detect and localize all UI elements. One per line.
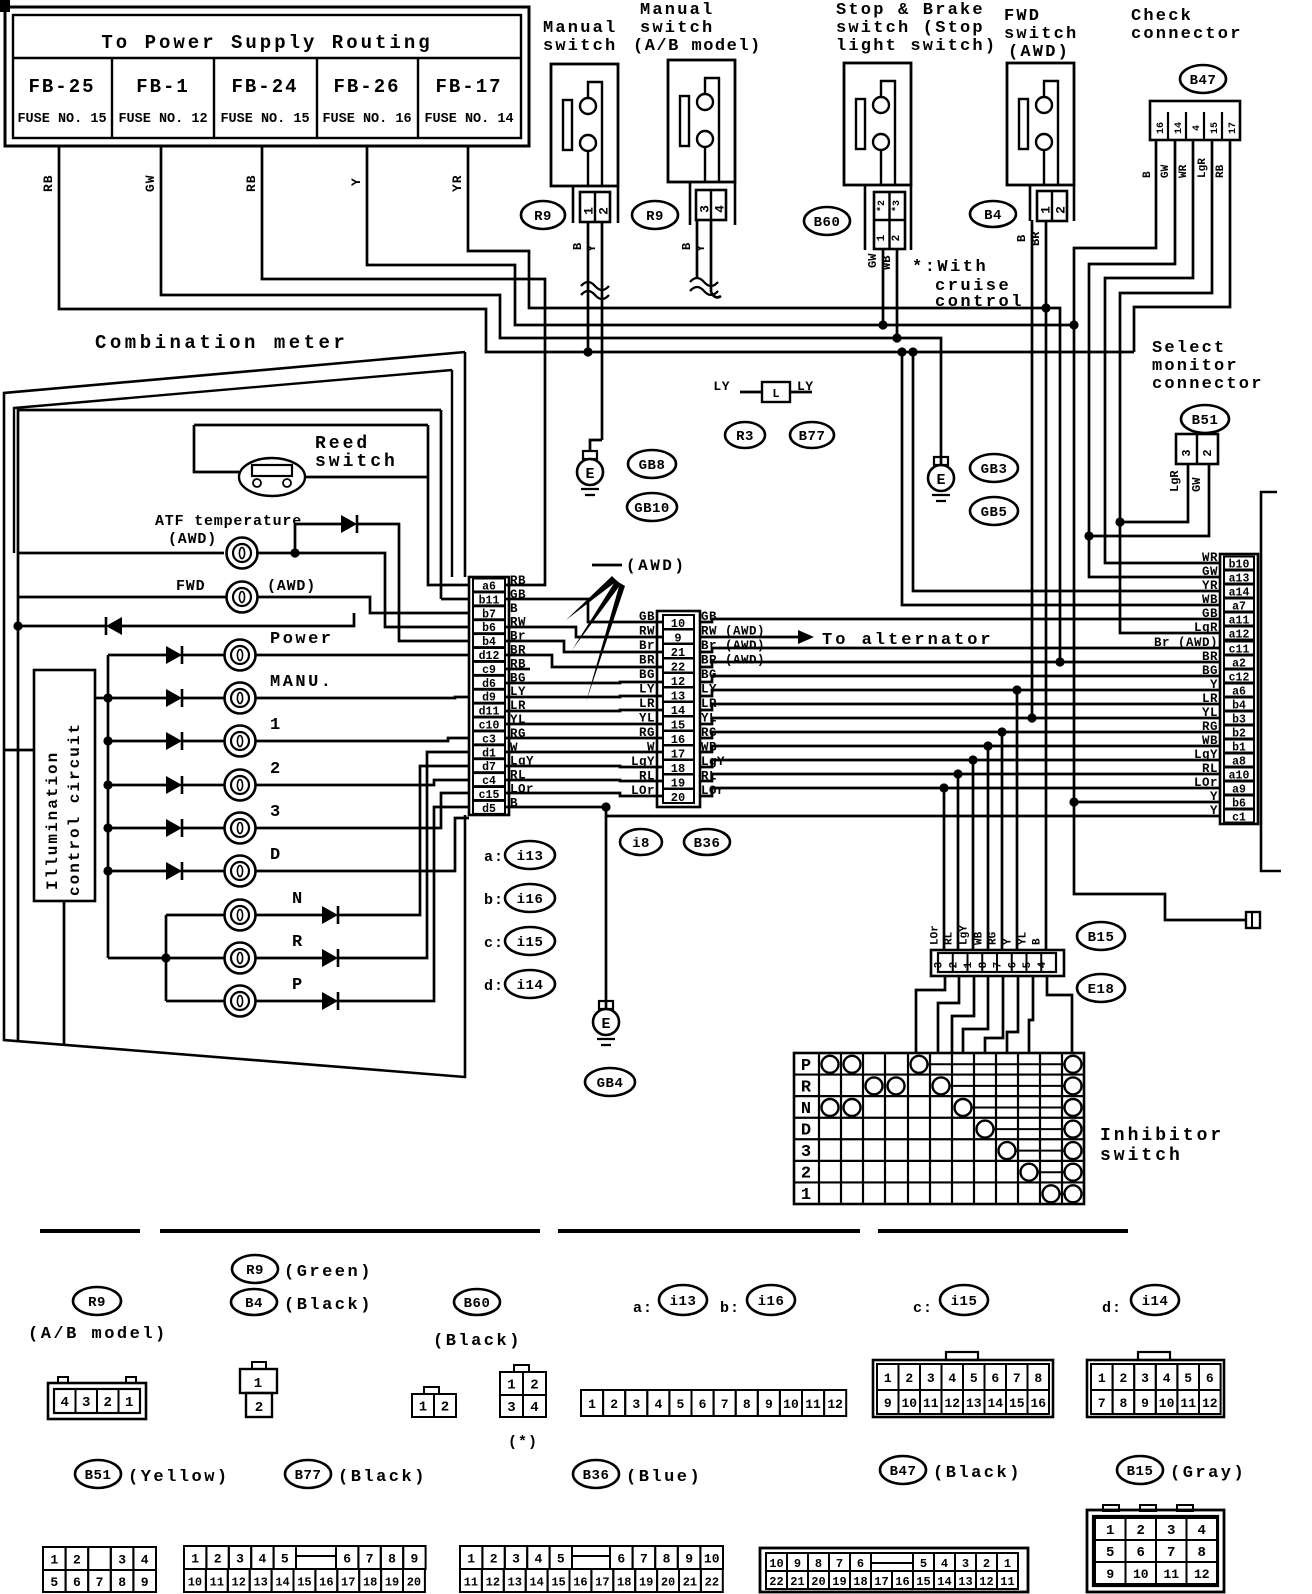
svg-text:LOr: LOr — [1194, 776, 1218, 790]
svg-text:14: 14 — [987, 1396, 1003, 1411]
svg-text:YL: YL — [1202, 706, 1218, 720]
svg-text:1: 1 — [876, 234, 888, 241]
svg-text:5: 5 — [50, 1575, 58, 1590]
svg-text:RL: RL — [944, 931, 956, 945]
svg-text:LgR: LgR — [1194, 621, 1218, 635]
svg-text:9: 9 — [794, 1557, 801, 1571]
inhibitor fan wires — [916, 976, 945, 1053]
svg-text:13: 13 — [508, 1576, 522, 1590]
inhibitor connector frame — [931, 950, 1064, 976]
meter pins — [473, 579, 505, 592]
svg-text:18: 18 — [853, 1575, 867, 1589]
svg-text:*3: *3 — [891, 200, 903, 212]
wires meter to mid straight — [505, 682, 663, 683]
table title separator — [13, 57, 521, 59]
svg-text:(Black): (Black) — [433, 1332, 522, 1351]
svg-text:B: B — [680, 243, 694, 250]
wire Br b4-21 — [505, 641, 663, 652]
svg-text:BG: BG — [639, 668, 655, 682]
wire RB fuse FB-25 — [59, 146, 1134, 352]
svg-text:Y: Y — [694, 244, 708, 252]
svg-text:i14: i14 — [517, 978, 544, 994]
plug symbol — [1246, 912, 1260, 928]
svg-text:FWD: FWD — [176, 578, 205, 595]
svg-text:1: 1 — [582, 207, 597, 215]
lamp bus left — [107, 655, 110, 958]
svg-text:2: 2 — [530, 1378, 538, 1394]
svg-text:B: B — [1142, 171, 1154, 178]
check connector block — [1150, 101, 1240, 140]
svg-text:16: 16 — [1156, 122, 1167, 134]
stop brake switch S3 — [844, 63, 911, 185]
svg-text:P: P — [292, 976, 305, 995]
svg-text:LgR: LgR — [1168, 470, 1182, 492]
svg-text:B77: B77 — [799, 429, 826, 445]
svg-text:9: 9 — [141, 1575, 149, 1590]
svg-text:6: 6 — [991, 1371, 999, 1386]
svg-text:control: control — [935, 293, 1024, 312]
svg-text:Power: Power — [270, 630, 334, 649]
svg-text:1: 1 — [801, 1186, 811, 1205]
ATF junction — [290, 548, 299, 557]
svg-text:5: 5 — [1184, 1371, 1192, 1386]
svg-text:control circuit: control circuit — [66, 722, 84, 896]
svg-text:7: 7 — [721, 1397, 729, 1412]
illumination control circuit box — [34, 670, 95, 901]
svg-text:GB4: GB4 — [597, 1076, 624, 1092]
svg-text:5: 5 — [281, 1552, 289, 1567]
svg-text:FWD: FWD — [1004, 7, 1041, 26]
svg-text:13: 13 — [966, 1396, 982, 1411]
inhibitor grid circles — [822, 1056, 839, 1073]
svg-text:b:: b: — [484, 892, 504, 909]
select monitor block — [1176, 434, 1218, 464]
svg-text:RB: RB — [1215, 164, 1227, 178]
svg-text:14: 14 — [275, 1576, 289, 1590]
svg-text:1: 1 — [588, 1397, 596, 1412]
svg-text:1: 1 — [419, 1400, 427, 1416]
junction WB — [892, 333, 901, 342]
svg-text:WB: WB — [1202, 593, 1218, 607]
select monitor wire LgR — [1120, 464, 1188, 522]
svg-text:2: 2 — [270, 760, 283, 779]
svg-text:2: 2 — [891, 235, 903, 242]
svg-text:15: 15 — [297, 1576, 311, 1590]
svg-text:3: 3 — [1180, 449, 1194, 456]
svg-text:d:: d: — [1102, 1300, 1122, 1317]
ground E manual — [583, 451, 597, 459]
svg-text:monitor: monitor — [1152, 357, 1239, 376]
svg-text:LY: LY — [713, 379, 730, 394]
svg-text:d5: d5 — [482, 803, 496, 816]
svg-text:a:: a: — [633, 1300, 653, 1317]
svg-text:3: 3 — [962, 1557, 969, 1571]
svg-text:WB: WB — [880, 256, 894, 270]
FWD lamp — [227, 582, 258, 613]
legend conn R9AB — [48, 1383, 146, 1419]
connector ref i8 — [620, 829, 662, 855]
svg-text:2: 2 — [948, 962, 960, 969]
svg-text:1: 1 — [125, 1395, 133, 1411]
legend conn i15 — [873, 1360, 1053, 1417]
svg-text:11: 11 — [1163, 1567, 1179, 1582]
wires mid to right column — [700, 619, 1221, 622]
svg-text:i8: i8 — [632, 836, 650, 852]
svg-text:5: 5 — [677, 1397, 685, 1412]
svg-text:9: 9 — [1106, 1567, 1114, 1582]
ref GB5 — [970, 497, 1018, 525]
ref B15 mid — [1077, 922, 1125, 950]
check wire LgR — [1120, 140, 1221, 633]
svg-text:R9: R9 — [246, 1263, 264, 1279]
connector ref R9 — [521, 201, 565, 229]
svg-text:2: 2 — [441, 1400, 449, 1416]
svg-text:(AWD): (AWD) — [168, 531, 217, 548]
svg-text:17: 17 — [341, 1576, 355, 1590]
illumination stub bottom — [63, 901, 66, 1045]
inhibitor feed wires — [943, 788, 946, 950]
svg-text:9: 9 — [765, 1397, 773, 1412]
svg-text:Y: Y — [1210, 804, 1218, 818]
svg-text:4: 4 — [1037, 961, 1049, 968]
legend conn strip12 — [581, 1390, 603, 1416]
svg-text:19: 19 — [385, 1576, 399, 1590]
svg-text:R9: R9 — [646, 209, 664, 225]
svg-text:Y: Y — [1003, 938, 1015, 945]
connector ref B4 — [970, 201, 1016, 227]
svg-text:5: 5 — [1106, 1545, 1114, 1561]
svg-text:N: N — [801, 1100, 811, 1119]
svg-text:LY: LY — [797, 379, 814, 394]
ref R3 — [725, 422, 765, 448]
svg-text:E: E — [936, 472, 945, 489]
svg-text:GB8: GB8 — [639, 458, 666, 474]
svg-text:To alternator: To alternator — [822, 631, 994, 650]
svg-text:4: 4 — [941, 1557, 948, 1571]
svg-text:D: D — [801, 1122, 811, 1141]
svg-text:FB-1: FB-1 — [136, 76, 190, 98]
svg-text:15: 15 — [551, 1576, 565, 1590]
svg-text:Y: Y — [1210, 790, 1218, 804]
legend B4 — [231, 1289, 277, 1315]
svg-text:LgY: LgY — [1194, 748, 1218, 762]
wire Y fuse FB-26 — [367, 146, 1221, 802]
svg-text:11: 11 — [210, 1576, 224, 1590]
svg-text:switch: switch — [1004, 25, 1078, 44]
wire YR fuse FB-17 — [468, 146, 1060, 662]
svg-text:14: 14 — [937, 1575, 951, 1589]
manual switch wires B Y — [587, 222, 590, 352]
svg-text:2: 2 — [983, 1557, 990, 1571]
svg-text:2: 2 — [104, 1395, 112, 1411]
check wire RB — [1134, 140, 1230, 352]
ATF diode branch — [295, 524, 469, 641]
svg-text:17: 17 — [1228, 122, 1239, 134]
svg-text:B47: B47 — [1190, 73, 1217, 89]
ground E stop — [934, 457, 948, 465]
inhibitor connector pins — [938, 953, 1056, 972]
svg-text:E: E — [601, 1016, 610, 1033]
wire RW b6-9 — [505, 627, 663, 637]
svg-text:LOr: LOr — [510, 783, 534, 797]
svg-text:GW: GW — [866, 253, 880, 268]
svg-text:18: 18 — [617, 1576, 631, 1590]
svg-text:1: 1 — [467, 1552, 475, 1567]
svg-text:i16: i16 — [517, 892, 544, 908]
svg-text:RG: RG — [988, 931, 1000, 945]
svg-text:1: 1 — [254, 1376, 262, 1392]
svg-text:BR (AWD): BR (AWD) — [701, 654, 765, 668]
svg-text:ATF temperature: ATF temperature — [155, 513, 302, 530]
svg-text:(Black): (Black) — [284, 1296, 373, 1315]
svg-text:8: 8 — [1034, 1371, 1042, 1386]
svg-text:(Blue): (Blue) — [626, 1468, 702, 1487]
svg-text:B15: B15 — [1088, 930, 1115, 946]
svg-text:10: 10 — [1159, 1396, 1175, 1411]
svg-text:B: B — [510, 602, 518, 616]
svg-text:Br (AWD): Br (AWD) — [1154, 636, 1218, 650]
A/B switch wires — [696, 220, 699, 278]
svg-text:3: 3 — [801, 1143, 811, 1162]
legend B60 — [454, 1289, 500, 1315]
svg-text:4: 4 — [1198, 1523, 1206, 1539]
svg-text:2: 2 — [905, 1371, 913, 1386]
reed switch wires — [194, 425, 469, 585]
L connector — [762, 382, 790, 402]
FWD wires — [18, 597, 469, 613]
svg-text:4: 4 — [654, 1397, 662, 1412]
svg-text:GB5: GB5 — [981, 505, 1008, 521]
svg-text:B: B — [1015, 235, 1029, 242]
svg-text:6: 6 — [343, 1552, 351, 1567]
svg-text:9: 9 — [410, 1552, 418, 1567]
svg-text:20: 20 — [811, 1575, 825, 1589]
svg-text:b:: b: — [720, 1300, 740, 1317]
svg-text:5: 5 — [1022, 961, 1034, 968]
svg-text:c1: c1 — [1232, 812, 1246, 825]
legend B51 — [75, 1460, 121, 1488]
svg-text:13: 13 — [253, 1576, 267, 1590]
svg-text:RB: RB — [244, 174, 259, 192]
svg-text:17: 17 — [874, 1575, 888, 1589]
svg-text:*:With: *:With — [912, 258, 988, 277]
svg-text:7: 7 — [993, 962, 1005, 969]
svg-text:(Gray): (Gray) — [1170, 1464, 1246, 1483]
svg-text:15: 15 — [916, 1575, 930, 1589]
to alternator arrow — [700, 636, 798, 639]
svg-text:1: 1 — [1098, 1371, 1106, 1386]
svg-text:B60: B60 — [464, 1296, 491, 1312]
svg-text:L: L — [772, 387, 779, 401]
inhibitor grid frame — [794, 1053, 1084, 1204]
svg-text:RG: RG — [1202, 720, 1218, 734]
svg-text:i13: i13 — [517, 849, 544, 865]
connector ref R9 A/B — [632, 201, 678, 229]
svg-text:GW: GW — [1202, 565, 1218, 579]
svg-text:B51: B51 — [1192, 413, 1219, 429]
svg-text:connector: connector — [1152, 375, 1264, 394]
right column frame — [1220, 554, 1258, 824]
svg-text:BR: BR — [639, 654, 655, 668]
inhibitor grid lines — [818, 1053, 820, 1204]
ATF lamp — [227, 538, 258, 569]
AWD arrows — [566, 576, 617, 620]
svg-text:8: 8 — [1119, 1396, 1127, 1411]
svg-text:B77: B77 — [295, 1468, 322, 1484]
svg-text:6: 6 — [1206, 1371, 1214, 1386]
svg-text:i14: i14 — [1142, 1294, 1169, 1310]
legend conn 12h — [424, 1387, 439, 1394]
svg-text:8: 8 — [815, 1557, 822, 1571]
svg-text:Reed: Reed — [315, 434, 370, 454]
svg-text:WR: WR — [1178, 164, 1190, 178]
legend R9 AB — [73, 1287, 121, 1315]
svg-text:5: 5 — [970, 1371, 978, 1386]
svg-text:1: 1 — [963, 961, 975, 968]
svg-text:2: 2 — [597, 207, 612, 215]
svg-text:12: 12 — [1202, 1396, 1218, 1411]
mid connector frame — [657, 611, 700, 807]
FWD switch wires B BR — [1031, 220, 1034, 718]
svg-text:1: 1 — [507, 1378, 515, 1394]
svg-text:3: 3 — [270, 803, 283, 822]
svg-text:16: 16 — [573, 1576, 587, 1590]
legend conn i14 — [1087, 1360, 1224, 1417]
svg-text:FB-25: FB-25 — [28, 76, 95, 98]
svg-text:18: 18 — [363, 1576, 377, 1590]
svg-text:Y: Y — [349, 177, 364, 186]
svg-text:10: 10 — [769, 1557, 783, 1571]
svg-text:14: 14 — [529, 1576, 543, 1590]
ref GB4 — [585, 1068, 635, 1096]
meter pin column frame — [469, 577, 509, 815]
svg-text:21: 21 — [683, 1576, 697, 1590]
svg-text:RB: RB — [510, 574, 526, 588]
svg-text:N: N — [292, 890, 305, 909]
svg-text:B: B — [571, 243, 585, 250]
svg-text:10: 10 — [783, 1397, 799, 1412]
svg-text:light switch): light switch) — [836, 37, 997, 56]
svg-text:B: B — [1032, 938, 1044, 945]
wire d5 to ground — [505, 807, 606, 1009]
svg-text:Manual: Manual — [543, 19, 617, 38]
junction FWD BR — [1041, 303, 1050, 312]
svg-text:3: 3 — [698, 205, 713, 213]
svg-text:E: E — [585, 466, 594, 483]
svg-text:B36: B36 — [694, 836, 721, 852]
svg-text:GW: GW — [1160, 164, 1172, 178]
svg-text:11: 11 — [464, 1576, 478, 1590]
svg-text:9: 9 — [685, 1552, 693, 1567]
svg-text:5: 5 — [557, 1552, 565, 1567]
svg-text:Y: Y — [585, 244, 599, 252]
svg-text:8: 8 — [663, 1552, 671, 1567]
svg-text:1: 1 — [1106, 1523, 1114, 1539]
svg-text:MANU.: MANU. — [270, 673, 334, 692]
svg-text:LOr: LOr — [930, 925, 942, 945]
svg-text:6: 6 — [857, 1557, 864, 1571]
legend B36 — [573, 1460, 619, 1488]
svg-text:connector: connector — [1131, 25, 1243, 44]
svg-text:11: 11 — [1180, 1396, 1196, 1411]
svg-text:switch (Stop: switch (Stop — [836, 19, 985, 38]
svg-text:7: 7 — [96, 1575, 104, 1590]
svg-text:1: 1 — [1039, 206, 1054, 214]
svg-text:FUSE NO. 16: FUSE NO. 16 — [322, 112, 411, 127]
svg-text:R: R — [292, 933, 305, 952]
svg-text:GB: GB — [1202, 607, 1218, 621]
legend R9 green — [232, 1255, 278, 1283]
svg-text:i16: i16 — [758, 1294, 785, 1310]
N R P rows with right diodes — [166, 914, 224, 917]
svg-text:FUSE NO. 14: FUSE NO. 14 — [424, 112, 513, 127]
svg-text:16: 16 — [895, 1575, 909, 1589]
svg-text:3: 3 — [934, 961, 946, 968]
svg-text:5: 5 — [920, 1557, 927, 1571]
legend B77 — [285, 1460, 331, 1488]
svg-text:2: 2 — [1137, 1523, 1145, 1539]
svg-text:22: 22 — [769, 1575, 783, 1589]
svg-text:12: 12 — [979, 1575, 993, 1589]
svg-text:8: 8 — [743, 1397, 751, 1412]
svg-text:8: 8 — [1198, 1545, 1206, 1561]
svg-text:11: 11 — [805, 1397, 821, 1412]
svg-text:(A/B model): (A/B model) — [28, 1325, 168, 1344]
svg-text:3: 3 — [632, 1397, 640, 1412]
svg-text:LgR: LgR — [1197, 158, 1209, 178]
svg-text:4: 4 — [141, 1553, 149, 1568]
ground E meter — [599, 1001, 613, 1009]
svg-text:FUSE NO. 15: FUSE NO. 15 — [17, 112, 106, 127]
svg-text:FUSE NO. 15: FUSE NO. 15 — [220, 112, 309, 127]
svg-text:switch: switch — [640, 19, 714, 38]
svg-text:R9: R9 — [88, 1295, 106, 1311]
svg-text:FB-17: FB-17 — [435, 76, 502, 98]
svg-text:Check: Check — [1131, 7, 1193, 26]
svg-text:2: 2 — [610, 1397, 618, 1412]
svg-text:19: 19 — [639, 1576, 653, 1590]
svg-text:3: 3 — [236, 1552, 244, 1567]
wire BR d12-22 — [505, 655, 663, 667]
svg-text:BR: BR — [1029, 231, 1043, 246]
svg-text:switch: switch — [543, 37, 617, 56]
svg-text:FB-26: FB-26 — [333, 76, 400, 98]
svg-text:D: D — [270, 846, 283, 865]
svg-text:switch: switch — [315, 452, 398, 472]
svg-text:YR: YR — [1202, 579, 1218, 593]
svg-text:15: 15 — [1210, 122, 1221, 134]
combination meter inner top — [14, 370, 452, 553]
svg-text:BR: BR — [1202, 650, 1218, 664]
svg-text:1: 1 — [270, 716, 283, 735]
svg-text:WR: WR — [1202, 551, 1218, 565]
connector ref B47 — [1180, 65, 1226, 93]
svg-text:2: 2 — [1119, 1371, 1127, 1386]
svg-text:10: 10 — [704, 1552, 720, 1567]
legend conn 9pin — [43, 1547, 66, 1570]
svg-text:(Black): (Black) — [933, 1464, 1022, 1483]
svg-text:4: 4 — [1163, 1371, 1171, 1386]
svg-text:Inhibitor: Inhibitor — [1100, 1126, 1224, 1146]
svg-text:3: 3 — [82, 1395, 90, 1411]
svg-text:4: 4 — [713, 205, 728, 213]
svg-text:2: 2 — [1054, 206, 1069, 214]
connector ref B51 — [1181, 405, 1229, 433]
legend conn 22pin — [460, 1546, 482, 1569]
A/B wire break — [690, 278, 718, 286]
svg-text:i15: i15 — [951, 1294, 978, 1310]
svg-text:B4: B4 — [245, 1296, 263, 1312]
